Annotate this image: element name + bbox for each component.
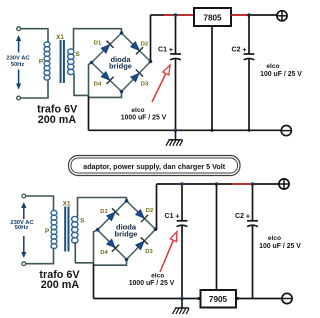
ground rail left segment (circuit 2) [94,298,201,300]
regulator U2 7905 (circuit 2) [201,290,237,308]
svg-text:C2: C2 [232,46,241,53]
svg-text:+: + [169,45,174,54]
svg-text:P: P [45,228,50,235]
ground rail (circuit 1) [89,129,282,131]
svg-text:200 mA: 200 mA [41,279,80,291]
wire secondary bottom (circuit 1) [74,74,89,95]
label elco 1000uF (circuit 1) [121,107,167,122]
label D3 (circuit 2) [145,249,153,255]
svg-text:D4: D4 [100,250,108,256]
title banner box [69,156,241,176]
label D2 (circuit 1) [141,42,148,48]
label elco 100uF (circuit 1) [260,63,302,78]
diode D4 (circuit 2) [107,239,120,252]
bridge diamond edges (circuit 1) [92,33,151,92]
node bridge top vertex (circuit 1) [120,31,124,35]
230V AC source arrow down (circuit 2) [21,236,26,258]
wire AC top to primary (circuit 2) [26,196,54,211]
label X1 (circuit 1) [56,34,64,41]
wire secondary top to bridge (circuit 2) [78,198,127,218]
wire V+ rail to plus terminal (circuit 1) [247,14,277,16]
label S secondary (circuit 2) [80,217,85,224]
node C1 top junction (circuit 1) [174,13,178,17]
svg-text:50Hz: 50Hz [11,62,25,68]
label dioda bridge (circuit 1) [109,55,132,71]
label trafo 6V 200 mA (circuit 1) [37,104,78,126]
svg-text:7805: 7805 [203,13,222,22]
diode D1 (circuit 1) [101,41,114,54]
ground symbol (circuit 1) [166,130,183,146]
svg-text:X1: X1 [63,201,71,208]
230V AC source arrow up (circuit 1) [16,35,21,53]
transformer X1 core (circuit 1) [60,40,65,83]
node C1 top junction (circuit 2) [180,182,184,186]
annotation arrow to C1 (circuit 2) [160,232,177,273]
svg-text:D1: D1 [100,209,108,215]
svg-text:X1: X1 [56,34,64,41]
wire V+ rail red segment into 7805 (circuit 1) [164,14,195,16]
transformer X1 core (circuit 2) [64,207,69,252]
wire regulator input from V+ rail (circuit 2) [216,184,218,291]
regulator U1 7805 (circuit 1) [194,8,231,26]
bridge diamond edges (circuit 2) [98,201,156,260]
transformer X1 primary winding (circuit 1) [44,42,50,80]
transformer X1 secondary winding (circuit 1) [68,49,74,75]
diode D2 (circuit 1) [131,42,144,55]
node 7905 left junction (circuit 2) [198,297,201,300]
label elco 100uF (circuit 2) [259,235,301,250]
diode D1 (circuit 2) [107,208,120,221]
label X1 (circuit 2) [63,201,71,208]
node bridge right vertex (circuit 1) [149,60,153,64]
node bridge left vertex (circuit 1) [90,61,94,65]
node C2 bottom junction (circuit 1) [248,129,251,132]
label S secondary (circuit 1) [75,51,80,58]
node bridge right vertex (circuit 2) [154,228,158,232]
node C1 bottom junction (circuit 1) [174,129,178,133]
wire bridge left vertex down (circuit 1) [89,63,92,97]
svg-text:adaptor, power supply, dan cha: adaptor, power supply, dan charger 5 Vol… [83,162,226,171]
svg-text:D3: D3 [141,82,149,88]
node C1 bottom junction (circuit 2) [180,297,184,301]
capacitor C2 (circuit 1) [232,15,255,130]
label D1 (circuit 1) [94,41,102,47]
svg-text:1000 uF / 25 V: 1000 uF / 25 V [121,115,167,122]
svg-text:7905: 7905 [209,295,228,304]
svg-text:elco: elco [151,273,164,280]
wire V+ rail red segment (circuit 2) [232,183,253,185]
annotation arrow to C1 (circuit 1) [152,65,170,102]
plus output terminal (circuit 2) [279,179,289,189]
node bridge top vertex (circuit 2) [125,199,129,203]
svg-text:D3: D3 [145,249,153,255]
transformer X1 secondary winding (circuit 2) [72,216,78,243]
svg-text:elco: elco [268,235,281,242]
wire secondary bottom (circuit 2) [75,242,93,263]
svg-text:+: + [242,45,247,54]
wire V+ rail to plus terminal (circuit 2) [253,183,280,185]
svg-text:C1: C1 [165,213,174,220]
label D2 (circuit 2) [146,208,153,214]
svg-text:+: + [175,212,180,221]
label P primary (circuit 1) [39,59,44,66]
label D4 (circuit 2) [100,250,108,256]
label D1 (circuit 2) [100,209,108,215]
svg-text:C1: C1 [158,46,167,53]
svg-text:1000 uF / 25 V: 1000 uF / 25 V [129,280,175,287]
wire AC bottom to primary (circuit 1) [21,80,49,99]
svg-text:S: S [75,51,80,58]
node C2 top junction (circuit 2) [251,182,255,186]
wire bridge left vertex down (circuit 2) [94,230,98,264]
svg-text:200 mA: 200 mA [38,114,77,126]
wire AC bottom to primary (circuit 2) [26,248,54,264]
wire V+ rail black left segment (circuit 2) [157,183,233,185]
svg-text:50Hz: 50Hz [15,225,29,231]
label P primary (circuit 2) [45,228,50,235]
wire bridge bottom vertex to junction (circuit 1) [89,92,122,98]
wire secondary top to bridge (circuit 1) [74,29,122,50]
svg-text:100 uF / 25 V: 100 uF / 25 V [260,71,302,78]
capacitor C1 (circuit 1) [158,15,181,130]
label D4 (circuit 1) [94,82,102,88]
wire bridge right vertex to V+ rail (circuit 1) [150,15,152,62]
AC input terminal bottom (circuit 1) [17,96,21,100]
plus output terminal (circuit 1) [277,11,287,21]
minus output terminal (circuit 2) [282,293,292,303]
svg-text:S: S [80,217,85,224]
diode D4 (circuit 1) [101,72,114,85]
label 230V AC 50Hz (circuit 1) [6,56,30,69]
transformer X1 primary winding (circuit 2) [51,210,57,248]
node C2 top junction (circuit 1) [247,13,251,17]
svg-text:100 uF / 25 V: 100 uF / 25 V [259,243,301,250]
230V AC source arrow down (circuit 1) [16,70,21,90]
node 7805 ground junction (circuit 1) [211,129,214,132]
wire bridge bottom vertex to junction (circuit 2) [94,260,127,266]
wire bridge right vertex to V+ rail (circuit 2) [156,184,157,229]
svg-text:elco: elco [131,107,144,114]
svg-text:D1: D1 [94,41,102,47]
svg-text:bridge: bridge [109,62,132,71]
svg-text:elco: elco [266,63,279,70]
label D3 (circuit 1) [141,82,149,88]
label 230V AC 50Hz (circuit 2) [10,220,34,231]
wire 7805 output red segment (circuit 1) [231,14,248,16]
ground rail right segment (circuit 2) [236,298,282,300]
AC input terminal top (circuit 1) [17,27,21,31]
svg-text:D2: D2 [146,208,153,214]
node 7905 right junction (circuit 2) [236,297,239,300]
svg-text:D2: D2 [141,42,148,48]
wire bridge minus to ground rail (circuit 2) [93,264,95,299]
wire bridge minus to ground rail (circuit 1) [88,96,90,130]
node bridge left vertex (circuit 2) [96,228,100,232]
capacitor C2 (circuit 2) [235,184,258,299]
svg-text:230V AC: 230V AC [6,56,30,62]
node regulator input junction (circuit 2) [215,182,219,186]
capacitor C1 (circuit 2) [165,184,188,299]
svg-text:+: + [246,212,251,221]
label dioda bridge (circuit 2) [115,223,138,239]
node bridge bottom vertex (circuit 2) [125,258,129,262]
diode D2 (circuit 2) [136,210,149,223]
AC input terminal bottom (circuit 2) [22,262,26,266]
svg-text:bridge: bridge [115,229,138,238]
node bridge bottom vertex (circuit 1) [120,90,124,94]
title banner text [83,162,226,171]
label trafo 6V 200 mA (circuit 2) [39,269,80,291]
label elco 1000uF (circuit 2) [129,273,175,288]
svg-text:P: P [39,59,44,66]
wire 7805 ground pin (circuit 1) [211,26,213,130]
wire AC top to primary (circuit 1) [21,29,49,43]
AC input terminal top (circuit 2) [22,194,26,198]
wire V+ rail black segment (circuit 1) [151,14,165,16]
svg-text:D4: D4 [94,82,102,88]
svg-text:C2: C2 [235,213,244,220]
230V AC source arrow up (circuit 2) [21,202,26,219]
minus output terminal (circuit 1) [281,126,291,136]
diode D3 (circuit 2) [136,237,149,250]
ground symbol (circuit 2) [173,299,190,315]
diode D3 (circuit 1) [131,70,144,83]
